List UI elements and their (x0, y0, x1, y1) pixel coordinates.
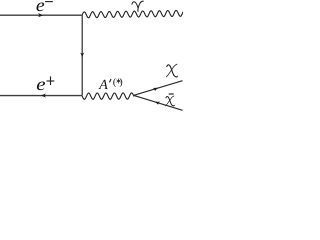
svg-text:e: e (36, 0, 45, 15)
internal electron propagator (81, 15, 83, 95)
dark photon wavy line A' (82, 93, 134, 99)
photon wavy line gamma (82, 10, 183, 17)
arrow on chi line (153, 88, 158, 91)
svg-text:): ) (119, 77, 122, 88)
positron line e+ (0, 95, 82, 97)
arrow on chi-bar line (toward vertex) (155, 102, 160, 105)
overline of chi-bar (169, 93, 174, 95)
prime of A'(*) (110, 79, 112, 82)
label chi-bar glyph (166, 96, 175, 106)
svg-text:A: A (98, 78, 108, 93)
arrow on e- line (38, 13, 43, 17)
arrow on e+ line (left) (41, 93, 46, 97)
svg-text:e: e (36, 74, 45, 94)
electron line e- (0, 14, 82, 16)
chi line (134, 81, 183, 96)
chi-bar line (134, 95, 183, 110)
label chi (166, 64, 177, 77)
label gamma (132, 1, 143, 11)
arrow on internal line (down) (80, 53, 84, 58)
superscript minus of e- (45, 1, 53, 3)
superscript plus of e+ : vertical stroke (50, 76, 52, 85)
superscript plus of e+ : horizontal stroke (47, 80, 55, 82)
